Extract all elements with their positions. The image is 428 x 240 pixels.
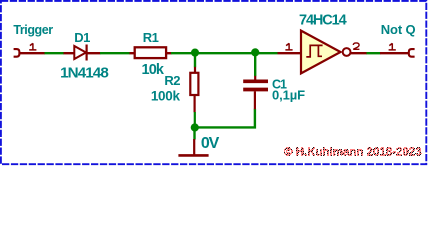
svg-text:100k: 100k (151, 88, 181, 103)
svg-text:D1: D1 (74, 30, 90, 45)
wire U1 out to output port (367, 52, 381, 54)
svg-text:10k: 10k (142, 62, 165, 78)
input port hook (14, 49, 20, 57)
pin number 1 (gate input) (285, 43, 292, 50)
sheet border frame (1, 1, 426, 164)
wire node B down to C1 (254, 53, 256, 76)
junction node GND rail (191, 123, 199, 131)
wire R1 to U1 input (171, 52, 278, 54)
hysteresis glyph (306, 45, 322, 57)
op-amp U1 schmitt inverter body (301, 31, 341, 74)
copyright watermark (284, 147, 422, 156)
svg-text:0,1µF: 0,1µF (272, 87, 305, 102)
wire node A down to R2 (194, 53, 196, 67)
gate input pin line (278, 52, 302, 54)
resistor R1 (130, 47, 172, 58)
wire input to D1 (45, 52, 65, 54)
inversion bubble (343, 48, 351, 56)
output port hook (409, 49, 415, 57)
sheet background (0, 0, 428, 166)
wire ground rail to C1 bottom (195, 109, 255, 128)
gate output pin line (351, 52, 367, 54)
wire R2 down to ground node (194, 112, 196, 128)
junction node A (R1/R2) (191, 49, 199, 57)
svg-text:74HC14: 74HC14 (299, 13, 347, 29)
wire D1 to R1 (100, 52, 130, 54)
svg-text:0V: 0V (201, 135, 220, 152)
diode D1 (64, 45, 101, 61)
resistor R2 (190, 67, 198, 112)
output pin line (380, 52, 409, 54)
input pin line (19, 52, 45, 54)
svg-text:Not Q: Not Q (381, 22, 416, 37)
svg-text:Trigger: Trigger (13, 23, 53, 37)
power symbol 0V (178, 129, 208, 155)
pin number 1 (input port) (29, 43, 36, 50)
svg-text:R1: R1 (143, 30, 159, 45)
pin number 1 (output port) (389, 43, 396, 50)
junction node B (C1 top) (251, 48, 259, 56)
svg-text:1N4148: 1N4148 (60, 64, 108, 81)
pin number 2 (gate output) (353, 43, 359, 49)
svg-text:R2: R2 (164, 73, 180, 88)
capacitor C1 (243, 76, 268, 109)
